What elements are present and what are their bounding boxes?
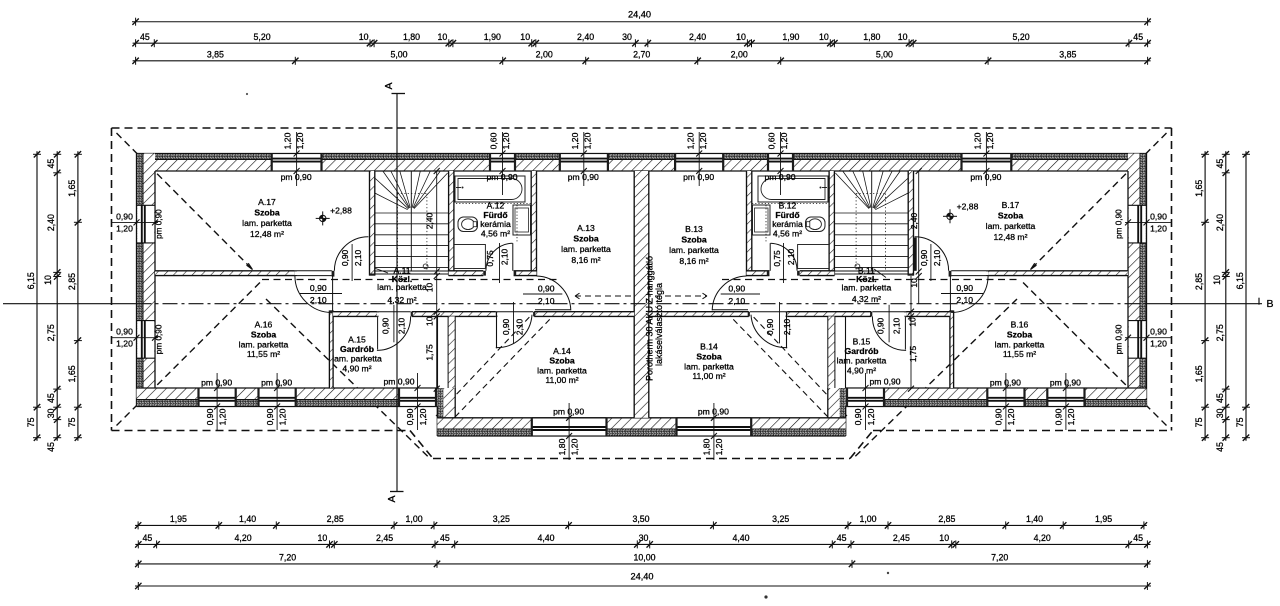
svg-text:1,80: 1,80 — [863, 32, 880, 42]
svg-text:lam. parketta: lam. parketta — [377, 282, 427, 292]
svg-text:1,95: 1,95 — [170, 514, 187, 524]
top dimension row total 24,40 — [132, 10, 1151, 26]
svg-text:45: 45 — [140, 32, 150, 42]
door B.16 labels — [941, 283, 983, 305]
svg-text:30: 30 — [1215, 408, 1225, 418]
bottom dimension row 2 — [135, 533, 1151, 548]
svg-text:1,20: 1,20 — [866, 408, 876, 425]
bathtub B.12 — [758, 176, 828, 202]
room A.11 label — [376, 266, 428, 306]
roof hip dashed BR — [1021, 280, 1167, 426]
shower tray B.12 — [798, 245, 830, 269]
washbasin A.12 — [513, 205, 531, 235]
room B.16 label — [995, 320, 1045, 360]
svg-text:0,90: 0,90 — [994, 408, 1004, 425]
svg-text:5,20: 5,20 — [254, 32, 271, 42]
svg-text:1,20: 1,20 — [985, 132, 995, 149]
svg-text:lam. parketta: lam. parketta — [684, 361, 734, 371]
svg-text:0,90: 0,90 — [956, 283, 973, 293]
A.16 doorway threshold — [295, 271, 335, 277]
svg-text:2,10: 2,10 — [353, 250, 363, 267]
top window dim at x=297 — [281, 132, 312, 186]
svg-text:pm 0,90: pm 0,90 — [486, 172, 517, 182]
svg-text:lam. parketta: lam. parketta — [242, 218, 292, 228]
room A.17 label — [242, 197, 292, 239]
svg-text:8,16 m²: 8,16 m² — [679, 256, 708, 266]
left exterior wall — [137, 154, 156, 407]
svg-text:1,20: 1,20 — [973, 132, 983, 149]
svg-text:1,20: 1,20 — [418, 408, 428, 425]
svg-text:Szoba: Szoba — [696, 351, 722, 361]
room A.15 label — [332, 335, 382, 374]
svg-text:0,90: 0,90 — [205, 408, 215, 425]
room B.14 label — [684, 342, 734, 382]
svg-text:1,20: 1,20 — [714, 438, 724, 455]
svg-text:1,65: 1,65 — [1194, 180, 1204, 197]
svg-text:45: 45 — [1215, 393, 1225, 403]
svg-text:30: 30 — [639, 533, 649, 543]
right exterior wall — [1128, 154, 1147, 407]
door A.15 arc+leaf — [377, 316, 411, 350]
right dim chain inner — [1194, 151, 1209, 441]
svg-text:10: 10 — [424, 316, 434, 326]
bottom exterior wall left section — [137, 388, 438, 407]
svg-text:3,85: 3,85 — [207, 50, 224, 60]
svg-text:Szoba: Szoba — [549, 356, 575, 366]
fürdő B.12 right wall — [829, 171, 834, 276]
svg-text:0,90: 0,90 — [853, 408, 863, 425]
door A.16 labels — [300, 283, 342, 305]
svg-text:A: A — [383, 82, 395, 89]
svg-text:45: 45 — [1215, 159, 1225, 169]
bump window dim at x=569 — [553, 403, 584, 460]
door A.12 labels — [485, 243, 509, 283]
svg-text:2,40: 2,40 — [424, 213, 434, 230]
right wall window dim at y=339 — [1115, 324, 1172, 354]
svg-text:45: 45 — [143, 533, 153, 543]
svg-text:0,90: 0,90 — [875, 318, 885, 335]
door B.15 arc+leaf — [872, 316, 906, 350]
svg-text:24,40: 24,40 — [628, 10, 651, 20]
svg-text:1,65: 1,65 — [67, 365, 77, 382]
wall A.15/A.14 — [438, 316, 456, 388]
svg-text:1,20: 1,20 — [283, 132, 293, 149]
door A.12 arc+leaf — [486, 243, 513, 271]
svg-text:pm 0,90: pm 0,90 — [155, 324, 164, 354]
top exterior wall — [137, 154, 1147, 172]
svg-text:pm 0,90: pm 0,90 — [553, 407, 584, 417]
svg-text:B.13: B.13 — [685, 224, 703, 234]
svg-text:2,00: 2,00 — [536, 50, 553, 60]
svg-text:2,85: 2,85 — [327, 514, 344, 524]
roof hip dashed TR (ends at B.17/B.16 wall) — [1031, 133, 1167, 270]
scan speck 3 — [246, 93, 248, 95]
svg-text:2,10: 2,10 — [499, 249, 509, 266]
svg-text:45: 45 — [46, 159, 56, 169]
left dim chain middle — [46, 151, 61, 452]
right dim chain middle — [1215, 151, 1230, 452]
svg-text:1,20: 1,20 — [295, 132, 305, 149]
stairs unit A — [375, 171, 449, 274]
roof hip dashed TL (ends at A.17/A.16 wall) — [117, 133, 253, 270]
door B.17 labels — [919, 244, 942, 281]
bottom window dim at x=1066 — [1050, 373, 1081, 430]
svg-text:pm 0,90: pm 0,90 — [1115, 324, 1124, 354]
door A.14 arc+leaf — [496, 312, 532, 349]
bump roof hip dashed A — [436, 316, 530, 416]
svg-text:1,20: 1,20 — [501, 132, 511, 149]
svg-text:1,65: 1,65 — [1194, 365, 1204, 382]
top wall windows (frames) — [271, 154, 1013, 172]
top dimension row segments — [132, 32, 1150, 47]
svg-text:1,75: 1,75 — [424, 344, 434, 361]
svg-text:1,95: 1,95 — [1095, 514, 1112, 524]
door B.13 arc+leaf — [712, 276, 748, 310]
door B.15 labels — [875, 305, 901, 343]
svg-text:A: A — [386, 495, 398, 502]
svg-text:10: 10 — [438, 32, 448, 42]
svg-text:1,20: 1,20 — [116, 339, 133, 349]
svg-text:2,85: 2,85 — [938, 514, 955, 524]
top window dim at x=986 — [970, 132, 1001, 186]
roof hip dashed BL — [117, 280, 263, 426]
svg-text:0,90: 0,90 — [310, 283, 327, 293]
roof ridge dashed line — [262, 279, 1020, 281]
svg-text:1,20: 1,20 — [1150, 223, 1167, 233]
svg-text:pm 0,90: pm 0,90 — [201, 378, 232, 388]
svg-text:lam. parketta: lam. parketta — [561, 244, 611, 254]
svg-text:10: 10 — [736, 32, 746, 42]
svg-text:4,32 m²: 4,32 m² — [387, 295, 416, 305]
bump corner dashed tick B — [826, 413, 840, 427]
door A.13 labels — [523, 284, 562, 307]
svg-text:10: 10 — [359, 32, 369, 42]
svg-text:1,80: 1,80 — [702, 438, 712, 455]
top window dim at x=502 — [486, 132, 517, 195]
svg-text:pm 0,90: pm 0,90 — [568, 172, 599, 182]
bottom dimension row 3 — [135, 553, 1151, 568]
wall between A.17 and A.16 — [155, 271, 297, 276]
bottom dimension row 1 — [135, 514, 1147, 529]
svg-text:8,16 m²: 8,16 m² — [571, 255, 600, 265]
svg-text:Szoba: Szoba — [681, 235, 707, 245]
bump roof hip dashed B — [753, 316, 847, 416]
svg-text:Szoba: Szoba — [573, 234, 599, 244]
svg-text:A.13: A.13 — [577, 223, 595, 233]
svg-text:10,00: 10,00 — [633, 553, 655, 563]
bottom window dim at x=1006 — [990, 373, 1021, 430]
wall between B.17 and B.16 — [986, 271, 1128, 276]
left dim chain inner — [67, 151, 82, 441]
svg-text:10: 10 — [939, 533, 949, 543]
top dimension row axis spacing — [132, 50, 1150, 65]
door A.16 arc+leaf — [295, 276, 333, 313]
svg-text:2,45: 2,45 — [893, 533, 910, 543]
svg-text:pm 0,90: pm 0,90 — [1115, 209, 1124, 239]
svg-text:6,15: 6,15 — [26, 272, 36, 289]
svg-text:2,10: 2,10 — [786, 249, 796, 266]
svg-text:10: 10 — [907, 317, 917, 327]
svg-text:pm 0,90: pm 0,90 — [683, 172, 714, 182]
svg-text:75: 75 — [67, 417, 77, 427]
svg-text:4,20: 4,20 — [1034, 533, 1051, 543]
section line B-B (axis) — [3, 298, 1262, 305]
svg-text:B.16: B.16 — [1011, 320, 1029, 330]
door A.17 arc — [334, 237, 368, 271]
svg-text:2,10: 2,10 — [956, 295, 973, 305]
svg-text:0,75: 0,75 — [485, 250, 495, 267]
bump corner dashed tick A — [443, 413, 457, 427]
svg-text:30: 30 — [46, 408, 56, 418]
bump bottom wall with windows — [437, 418, 845, 436]
level marker A.17 — [316, 206, 352, 226]
svg-text:0,60: 0,60 — [489, 132, 499, 149]
svg-text:45: 45 — [46, 393, 56, 403]
svg-text:0,60: 0,60 — [767, 132, 777, 149]
svg-text:2,40: 2,40 — [1215, 214, 1225, 231]
svg-text:0,75: 0,75 — [772, 250, 782, 267]
svg-text:11,55 m²: 11,55 m² — [1003, 349, 1036, 359]
svg-text:4,20: 4,20 — [235, 533, 252, 543]
svg-text:10: 10 — [898, 32, 908, 42]
svg-text:1,40: 1,40 — [1026, 514, 1043, 524]
wall B.15/B.14 — [828, 316, 846, 388]
door B.14 arc+leaf — [751, 312, 787, 349]
svg-text:0,90: 0,90 — [265, 408, 275, 425]
svg-text:pm 0,90: pm 0,90 — [764, 172, 795, 182]
svg-text:Porotherm 30 AKU Z hanggátló: Porotherm 30 AKU Z hanggátló — [645, 256, 655, 381]
svg-text:4,90 m²: 4,90 m² — [342, 363, 371, 373]
svg-text:75: 75 — [1235, 417, 1245, 427]
bathtub A.12 — [455, 176, 525, 202]
stair left wall (A.17 right wall) — [370, 171, 375, 276]
section line A-A — [390, 94, 405, 492]
toilet A.12 — [458, 217, 478, 232]
svg-text:0,90: 0,90 — [728, 284, 745, 294]
door B.12 arc+leaf — [770, 243, 797, 271]
svg-text:4,56 m²: 4,56 m² — [773, 228, 802, 238]
svg-text:B.15: B.15 — [853, 337, 871, 347]
svg-text:2,00: 2,00 — [731, 50, 748, 60]
svg-text:2,40: 2,40 — [46, 214, 56, 231]
svg-text:1,20: 1,20 — [217, 408, 227, 425]
svg-text:2,10: 2,10 — [310, 295, 327, 305]
top window dim at x=780 — [764, 132, 795, 195]
svg-text:75: 75 — [1194, 417, 1204, 427]
svg-text:A.17: A.17 — [258, 197, 276, 207]
svg-text:1,20: 1,20 — [277, 408, 287, 425]
svg-text:3,25: 3,25 — [493, 514, 510, 524]
door A.15 labels — [380, 305, 406, 343]
svg-text:5,20: 5,20 — [1013, 32, 1030, 42]
room B.13 label — [669, 224, 719, 266]
door B.17 arc+leaf — [913, 237, 948, 271]
svg-text:4,90 m²: 4,90 m² — [847, 365, 876, 375]
svg-text:lakáselválasztó tégla: lakáselválasztó tégla — [654, 283, 664, 366]
svg-text:A.14: A.14 — [553, 346, 571, 356]
svg-text:Szoba: Szoba — [251, 329, 277, 339]
svg-text:1,20: 1,20 — [569, 438, 579, 455]
bottom exterior wall right section — [846, 388, 1147, 407]
svg-text:7,20: 7,20 — [279, 553, 296, 563]
svg-text:2,10: 2,10 — [514, 319, 524, 336]
left wall window dim at y=224 — [112, 209, 164, 239]
washbasin B.12 — [753, 205, 771, 235]
svg-text:1,40: 1,40 — [239, 514, 256, 524]
svg-text:lam. parketta: lam. parketta — [986, 221, 1036, 231]
svg-text:lam. parketta: lam. parketta — [537, 365, 587, 375]
door A.17 labels — [340, 244, 363, 281]
door B.16 arc+leaf — [950, 276, 988, 313]
svg-text:2,40: 2,40 — [909, 213, 919, 230]
stair/corridor dim chain A — [424, 168, 439, 392]
bump left side wall — [437, 388, 455, 436]
bump window dim at x=714 — [698, 403, 729, 460]
svg-text:2,75: 2,75 — [46, 324, 56, 341]
door B.14 labels — [765, 302, 792, 343]
top window dim at x=584 — [568, 132, 599, 186]
svg-text:45: 45 — [46, 442, 56, 452]
svg-text:2,10: 2,10 — [782, 319, 792, 336]
svg-text:lam. parketta: lam. parketta — [995, 339, 1045, 349]
door A.13 arc+leaf — [535, 276, 571, 310]
svg-text:45: 45 — [1133, 533, 1143, 543]
svg-text:2,10: 2,10 — [728, 296, 745, 306]
svg-text:Szoba: Szoba — [1007, 329, 1033, 339]
svg-text:0,90: 0,90 — [1054, 408, 1064, 425]
roof eaves outline (dashed) — [112, 128, 1172, 459]
svg-text:B: B — [1266, 298, 1273, 310]
fürdő B.12 left wall — [747, 171, 752, 276]
svg-text:10: 10 — [1212, 275, 1222, 285]
roof valley dashed left — [266, 299, 430, 459]
svg-text:2,10: 2,10 — [932, 250, 942, 267]
svg-text:2,85: 2,85 — [1194, 273, 1204, 290]
svg-text:6,15: 6,15 — [1235, 272, 1245, 289]
svg-text:45: 45 — [1133, 32, 1143, 42]
svg-text:2,70: 2,70 — [633, 50, 650, 60]
fürdő A.12 right wall — [531, 171, 536, 276]
svg-text:10: 10 — [520, 32, 530, 42]
svg-text:12,48 m²: 12,48 m² — [250, 229, 284, 239]
svg-text:2,85: 2,85 — [67, 273, 77, 290]
roof valley dashed right — [853, 299, 1017, 459]
bottom window dim at x=217 — [201, 373, 232, 430]
svg-text:5,00: 5,00 — [876, 50, 893, 60]
svg-text:10: 10 — [909, 278, 919, 288]
right wall window dim at y=224 — [1115, 209, 1172, 239]
svg-text:0,90: 0,90 — [765, 319, 775, 336]
svg-text:0,90: 0,90 — [405, 408, 415, 425]
door A.14 labels — [501, 302, 524, 343]
door B.13 labels — [721, 284, 760, 307]
svg-text:11,00 m²: 11,00 m² — [692, 371, 725, 381]
svg-text:lam. parketta: lam. parketta — [332, 354, 382, 364]
svg-text:4,32 m²: 4,32 m² — [852, 294, 881, 304]
room A.14 label — [537, 346, 587, 385]
wall B.16/B.15 — [950, 310, 954, 388]
svg-text:10: 10 — [43, 275, 53, 285]
svg-text:75: 75 — [26, 417, 36, 427]
svg-text:2,10: 2,10 — [396, 318, 406, 335]
svg-text:1,00: 1,00 — [859, 514, 876, 524]
level marker B.17 — [943, 202, 979, 224]
svg-text:1,80: 1,80 — [403, 32, 420, 42]
svg-text:Gardrób: Gardrób — [845, 346, 879, 356]
svg-text:4,40: 4,40 — [537, 533, 554, 543]
svg-text:lam. parketta: lam. parketta — [842, 282, 892, 292]
svg-text:Gardrób: Gardrób — [340, 344, 374, 354]
svg-text:pm 0,90: pm 0,90 — [990, 378, 1021, 388]
svg-text:0,90: 0,90 — [116, 327, 133, 337]
bump roof valley dashed B — [730, 316, 828, 417]
bump roof valley dashed A — [455, 316, 553, 417]
svg-text:1,20: 1,20 — [685, 132, 695, 149]
scan speck 2 — [887, 572, 889, 574]
svg-text:1,80: 1,80 — [557, 438, 567, 455]
svg-text:2,10: 2,10 — [538, 296, 555, 306]
svg-text:1,00: 1,00 — [406, 514, 423, 524]
svg-text:1,20: 1,20 — [570, 132, 580, 149]
svg-text:10: 10 — [819, 32, 829, 42]
svg-text:2,40: 2,40 — [577, 32, 594, 42]
room B.12 label — [772, 201, 803, 239]
svg-text:45: 45 — [1215, 442, 1225, 452]
room B.15 label — [837, 337, 887, 376]
svg-text:Szoba: Szoba — [254, 208, 280, 218]
svg-text:2,75: 2,75 — [1215, 324, 1225, 341]
svg-text:45: 45 — [837, 533, 847, 543]
svg-text:lam. parketta: lam. parketta — [239, 339, 289, 349]
svg-text:A.16: A.16 — [255, 320, 273, 330]
right wall windows — [1128, 205, 1147, 358]
room A.12 label — [480, 201, 511, 239]
bottom window dim at x=277 — [261, 373, 292, 430]
svg-text:1,90: 1,90 — [484, 32, 501, 42]
corridor bottom wall with B.15 and B.14 doorways — [649, 312, 950, 317]
svg-text:2,45: 2,45 — [376, 533, 393, 543]
room A.13 label — [561, 223, 611, 265]
svg-text:lam. parketta: lam. parketta — [837, 356, 887, 366]
svg-text:4,56 m²: 4,56 m² — [481, 228, 510, 238]
svg-text:1,65: 1,65 — [67, 180, 77, 197]
svg-text:pm 0,90: pm 0,90 — [155, 209, 164, 239]
svg-text:+2,88: +2,88 — [330, 206, 352, 216]
svg-text:3,85: 3,85 — [1059, 50, 1076, 60]
room B.17 label — [986, 200, 1036, 242]
svg-text:1,20: 1,20 — [1150, 339, 1167, 349]
stair/corridor dim chain B — [907, 168, 921, 392]
svg-text:10: 10 — [318, 533, 328, 543]
svg-text:0,90: 0,90 — [1150, 327, 1167, 337]
svg-text:1,75: 1,75 — [908, 346, 918, 363]
A.15/B.15 window dim at x=418 — [383, 373, 427, 430]
left dim chain outer (6,15) — [26, 151, 41, 441]
svg-text:0,90: 0,90 — [340, 250, 350, 267]
left wall windows — [137, 205, 156, 358]
svg-text:11,55 m²: 11,55 m² — [247, 349, 280, 359]
svg-text:2,40: 2,40 — [689, 32, 706, 42]
fürdő A.12 bottom wall — [449, 271, 537, 276]
toilet B.12 — [806, 217, 826, 232]
svg-text:pm 0,90: pm 0,90 — [698, 407, 729, 417]
fürdő A.12 left wall — [449, 171, 454, 276]
svg-text:A.15: A.15 — [348, 335, 366, 345]
svg-text:B.14: B.14 — [700, 342, 718, 352]
svg-text:0,90: 0,90 — [919, 250, 929, 267]
svg-text:B.17: B.17 — [1002, 200, 1020, 210]
svg-text:1,20: 1,20 — [582, 132, 592, 149]
